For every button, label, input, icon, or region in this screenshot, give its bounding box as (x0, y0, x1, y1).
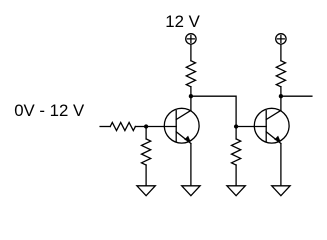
supply terminal V1 +12V (186, 34, 196, 44)
resistor R1 collector load Q1 (186, 61, 195, 87)
node collector Q1 (189, 94, 193, 98)
supply terminal V2 +12V (276, 34, 286, 44)
wire node C1 to node B2 (191, 96, 236, 126)
wire R2 to ground (145, 165, 147, 186)
wire V1 to R1 (190, 45, 192, 61)
ground under Q1 emitter (182, 186, 200, 196)
wire node B1 to R2 (145, 127, 147, 139)
wire V2 to R4 (280, 45, 282, 61)
wire R1 to node C1 (190, 87, 192, 96)
ground under R2 (137, 186, 155, 196)
wire collector Q1 (190, 96, 192, 110)
node collector Q2 (279, 94, 283, 98)
wire emitter Q1 to ground (190, 144, 192, 186)
wire input (100, 126, 110, 128)
resistor R2 base pulldown Q1 (142, 139, 151, 165)
wire Rin to node B1 (135, 126, 146, 128)
resistor R4 collector load Q2 (276, 61, 285, 87)
wire node B1 to Q1 base (146, 126, 176, 128)
resistor Rin input series (110, 122, 135, 130)
wire node B2 to Q2 base (236, 126, 266, 128)
wire R4 to node C2 (280, 87, 282, 96)
svg-text:0V - 12 V: 0V - 12 V (14, 101, 85, 120)
resistor R3 base pulldown Q2 (232, 139, 241, 165)
wire emitter Q2 to ground (280, 144, 282, 186)
wire R3 to ground (235, 165, 237, 186)
node base Q1 (144, 124, 148, 128)
wire node B2 to R3 (235, 127, 237, 139)
wire collector Q2 (280, 96, 282, 110)
transistor Q1 (164, 108, 199, 143)
wire output (281, 95, 312, 97)
svg-text:12 V: 12 V (165, 12, 200, 31)
node base Q2 (234, 124, 238, 128)
ground under Q2 emitter (272, 186, 290, 196)
transistor Q2 (254, 108, 289, 143)
ground under R3 (227, 186, 245, 196)
